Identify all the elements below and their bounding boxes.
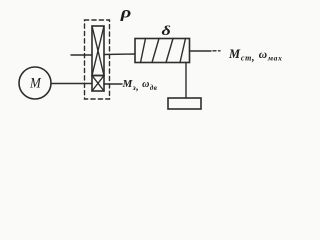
svg-text:δ: δ [162,24,171,39]
svg-text:М: М [29,75,42,91]
svg-text:ρ: ρ [120,4,132,21]
